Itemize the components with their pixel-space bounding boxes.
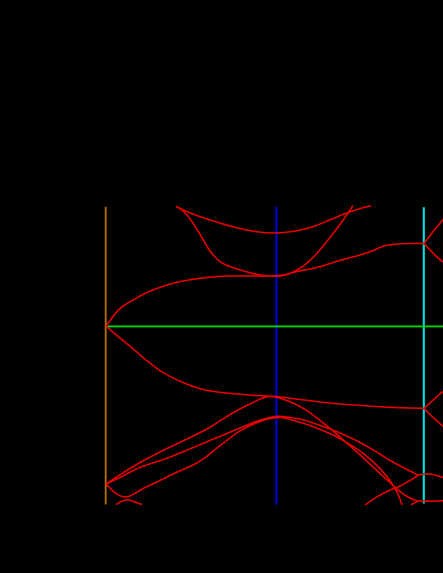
tick into bottom-right junction [411,501,419,505]
dome band crossing cyan line [418,474,443,478]
orange vertical line: left high-symmetry point [105,207,107,505]
conduction band c2 (deep V) [176,206,353,277]
valence band v2 [106,396,419,501]
blue vertical line: middle high-symmetry point [275,207,277,505]
v2 flat segment bottom right [419,500,443,502]
c3 fold branch down [424,244,443,263]
conduction band c1 (shallow U) [176,206,371,233]
green horizontal Fermi level line [106,325,443,327]
v1 fold branch up [424,392,443,409]
valence band v4 (valley at left edge) [106,417,402,505]
conduction band c3 to cyan fork [106,243,424,326]
valence band v1 [106,326,424,408]
small dome at bottom left [116,500,142,505]
valence band v3 [106,416,418,484]
cyan vertical line: right high-symmetry point [423,207,425,503]
c3 fold branch up [424,220,443,244]
valence band rising into junction at cyan [365,476,418,506]
v1 fold branch down [424,408,443,426]
